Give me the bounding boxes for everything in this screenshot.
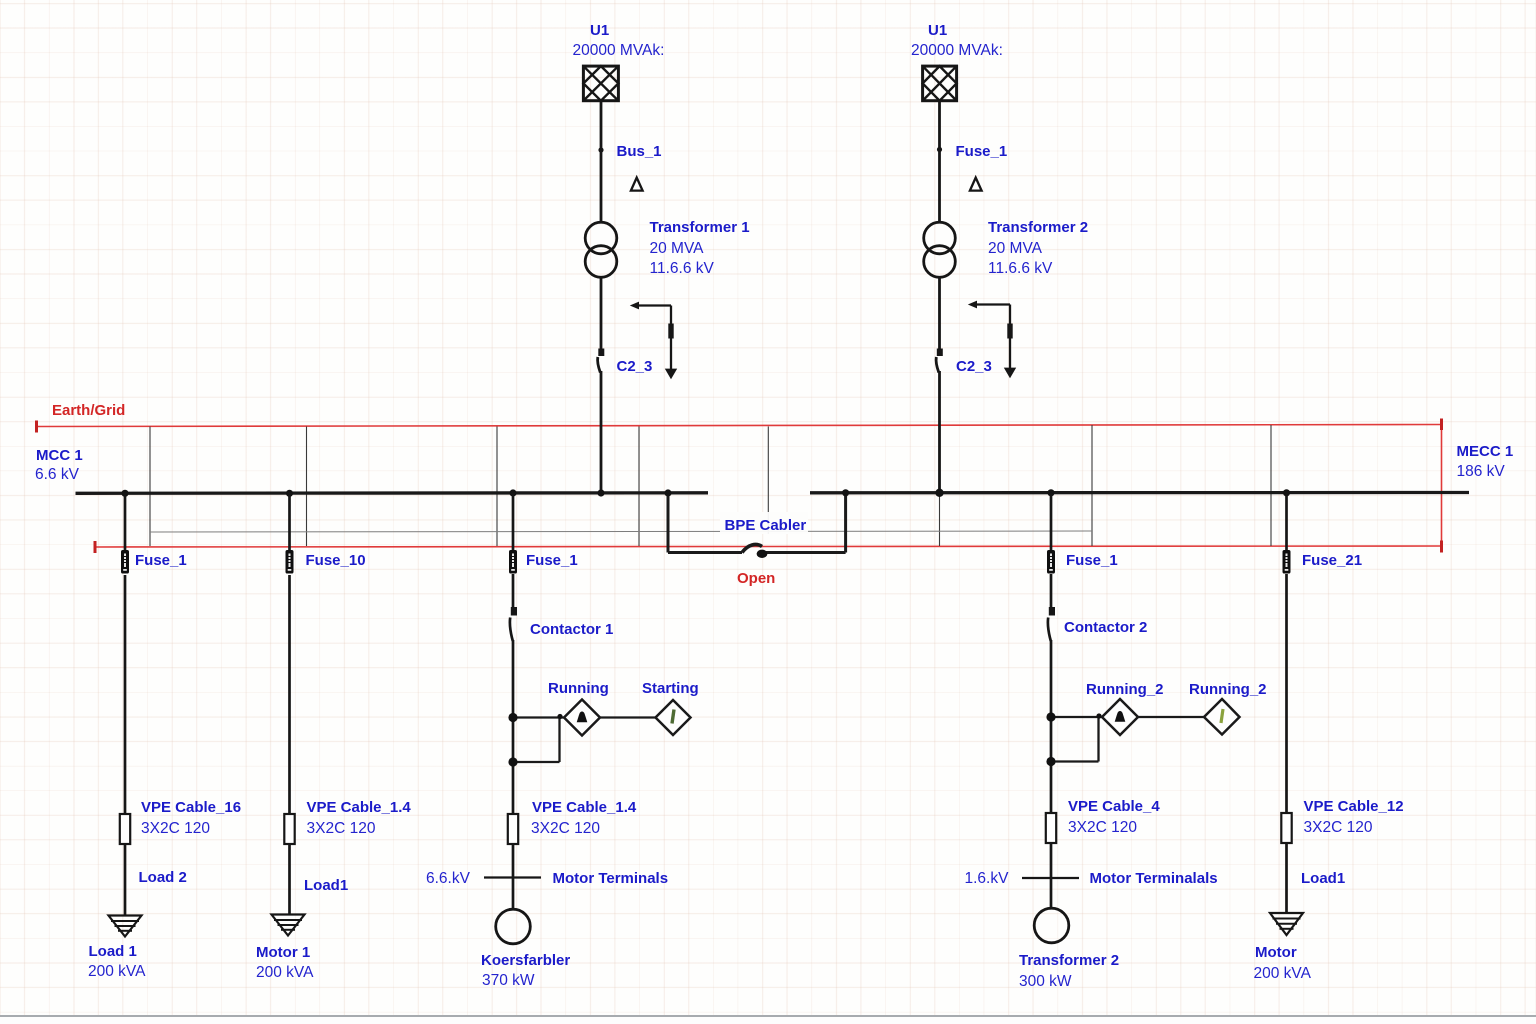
svg-text:Starting: Starting bbox=[642, 680, 699, 697]
svg-text:MECC 1: MECC 1 bbox=[1457, 443, 1514, 460]
svg-text:Running: Running bbox=[548, 680, 609, 697]
svg-text:Motor Terminalals: Motor Terminalals bbox=[1090, 870, 1218, 887]
svg-text:300 kW: 300 kW bbox=[1019, 973, 1072, 990]
svg-text:200 kVA: 200 kVA bbox=[88, 963, 146, 980]
svg-text:11.6.6 kV: 11.6.6 kV bbox=[988, 260, 1053, 277]
svg-text:U1: U1 bbox=[590, 22, 609, 39]
svg-text:MCC 1: MCC 1 bbox=[36, 447, 83, 464]
svg-text:Running_2: Running_2 bbox=[1189, 681, 1267, 698]
svg-text:Load1: Load1 bbox=[1301, 870, 1345, 887]
svg-text:Open: Open bbox=[737, 570, 775, 587]
svg-text:20000 MVAk:: 20000 MVAk: bbox=[573, 42, 665, 59]
svg-text:3X2C 120: 3X2C 120 bbox=[1068, 819, 1137, 836]
svg-text:Fuse_1: Fuse_1 bbox=[1066, 552, 1118, 569]
svg-text:Contactor 1: Contactor 1 bbox=[530, 621, 613, 638]
svg-text:1.6.kV: 1.6.kV bbox=[965, 870, 1010, 887]
svg-text:Fuse_1: Fuse_1 bbox=[135, 552, 187, 569]
svg-text:Bus_1: Bus_1 bbox=[617, 143, 662, 160]
svg-text:Motor: Motor bbox=[1255, 944, 1297, 961]
svg-text:Fuse_21: Fuse_21 bbox=[1302, 552, 1362, 569]
svg-text:3X2C 120: 3X2C 120 bbox=[141, 820, 210, 837]
svg-text:186 kV: 186 kV bbox=[1457, 463, 1506, 480]
svg-text:200 kVA: 200 kVA bbox=[256, 964, 314, 981]
svg-text:VPE Cable_1.4: VPE Cable_1.4 bbox=[532, 799, 637, 816]
svg-text:Contactor 2: Contactor 2 bbox=[1064, 619, 1147, 636]
svg-text:VPE Cable_4: VPE Cable_4 bbox=[1068, 798, 1160, 815]
svg-text:20 MVA: 20 MVA bbox=[650, 240, 705, 257]
svg-text:Fuse_1: Fuse_1 bbox=[956, 143, 1008, 160]
svg-text:Transformer 2: Transformer 2 bbox=[1019, 952, 1119, 969]
svg-text:Transformer 1: Transformer 1 bbox=[650, 219, 750, 236]
svg-text:Koersfarbler: Koersfarbler bbox=[481, 952, 570, 969]
svg-text:6.6.kV: 6.6.kV bbox=[426, 870, 471, 887]
svg-text:Fuse_1: Fuse_1 bbox=[526, 552, 578, 569]
svg-text:11.6.6 kV: 11.6.6 kV bbox=[650, 260, 715, 277]
svg-text:6.6 kV: 6.6 kV bbox=[35, 466, 80, 483]
svg-text:200 kVA: 200 kVA bbox=[1254, 965, 1312, 982]
svg-text:VPE Cable_16: VPE Cable_16 bbox=[141, 799, 241, 816]
svg-text:Load 2: Load 2 bbox=[139, 869, 187, 886]
svg-text:20 MVA: 20 MVA bbox=[988, 240, 1043, 257]
svg-text:U1: U1 bbox=[928, 22, 947, 39]
svg-text:Earth/Grid: Earth/Grid bbox=[52, 402, 125, 419]
svg-text:Load 1: Load 1 bbox=[89, 943, 137, 960]
svg-text:3X2C 120: 3X2C 120 bbox=[1304, 819, 1373, 836]
svg-text:C2_3: C2_3 bbox=[956, 358, 992, 375]
svg-text:VPE Cable_12: VPE Cable_12 bbox=[1304, 798, 1404, 815]
svg-text:Motor Terminals: Motor Terminals bbox=[553, 870, 669, 887]
svg-text:BPE Cabler: BPE Cabler bbox=[725, 517, 807, 534]
svg-text:Fuse_10: Fuse_10 bbox=[306, 552, 366, 569]
svg-text:VPE Cable_1.4: VPE Cable_1.4 bbox=[307, 799, 412, 816]
svg-text:Running_2: Running_2 bbox=[1086, 681, 1164, 698]
svg-text:Load1: Load1 bbox=[304, 877, 348, 894]
svg-text:C2_3: C2_3 bbox=[617, 358, 653, 375]
svg-text:3X2C 120: 3X2C 120 bbox=[307, 820, 376, 837]
svg-text:Transformer 2: Transformer 2 bbox=[988, 219, 1088, 236]
svg-text:3X2C 120: 3X2C 120 bbox=[531, 820, 600, 837]
svg-text:370 kW: 370 kW bbox=[482, 972, 535, 989]
svg-text:20000 MVAk:: 20000 MVAk: bbox=[911, 42, 1003, 59]
svg-text:Motor 1: Motor 1 bbox=[256, 944, 310, 961]
